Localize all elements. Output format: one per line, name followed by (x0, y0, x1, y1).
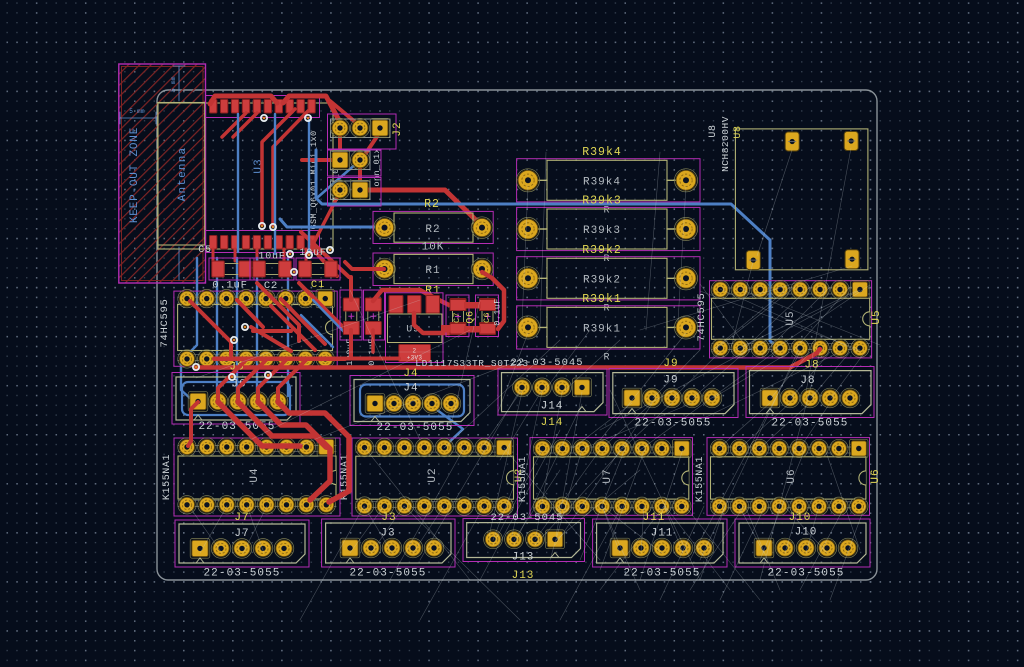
capacitor C6 (480, 299, 496, 335)
wire (234, 249, 237, 261)
capacitor C7 (450, 299, 466, 335)
wire (237, 114, 239, 252)
resistor R39k1 (516, 307, 697, 347)
wire (222, 113, 246, 137)
wire (287, 258, 289, 396)
wire (283, 249, 286, 261)
svg-text:0.1uF: 0.1uF (493, 298, 503, 326)
svg-text:J10: J10 (789, 512, 812, 524)
dimension bottom (178, 247, 180, 280)
connector J10 (739, 523, 866, 563)
wire (349, 330, 353, 358)
svg-text:22-03-5055: 22-03-5055 (634, 418, 711, 430)
capacitor C5 courtyard (209, 258, 254, 280)
connector J2 group1 courtyard (328, 114, 397, 149)
wire (190, 301, 231, 355)
svg-text:Antenna: Antenna (177, 147, 189, 202)
wire (280, 219, 384, 227)
connector J2 group3 courtyard (328, 178, 382, 207)
wire (302, 158, 333, 162)
svg-text:22-03-5055: 22-03-5055 (203, 568, 280, 580)
svg-text:J2: J2 (392, 121, 404, 136)
wire (212, 249, 215, 261)
wire (218, 360, 246, 401)
svg-text:J4: J4 (403, 383, 418, 395)
wire (262, 109, 295, 225)
svg-text:J14: J14 (541, 417, 564, 429)
wire (214, 357, 345, 361)
svg-text:C1: C1 (311, 279, 325, 291)
vias (193, 115, 333, 380)
dimension 6mm (170, 66, 185, 101)
wire (790, 349, 820, 368)
antenna A1 (158, 103, 205, 246)
svg-text:74HC595: 74HC595 (159, 298, 171, 347)
wire (196, 365, 790, 370)
svg-text:R2: R2 (424, 198, 440, 211)
svg-text:U4: U4 (249, 467, 261, 482)
wire (258, 402, 330, 500)
svg-text:U6: U6 (870, 468, 882, 483)
wire (433, 407, 463, 444)
wire (214, 357, 399, 361)
svg-text:K155NA1: K155NA1 (695, 456, 706, 502)
svg-text:10uF: 10uF (258, 252, 285, 263)
wire (464, 302, 481, 309)
capacitor C3 (343, 298, 359, 335)
keep-out zone (119, 64, 206, 283)
wire (281, 299, 325, 344)
ratsnest (189, 148, 880, 620)
svg-text:R39k3: R39k3 (583, 225, 621, 237)
svg-text:74HC595: 74HC595 (696, 292, 708, 341)
svg-text:10uF: 10uF (299, 248, 326, 259)
connector J14 (502, 373, 604, 412)
capacitor C5 (212, 261, 252, 277)
capacitor C6 courtyard (476, 295, 499, 337)
svg-text:U8: U8 (733, 125, 744, 138)
svg-text:22-03-5055: 22-03-5055 (623, 568, 700, 580)
wire (349, 280, 353, 300)
resistor R39k2 courtyard (517, 257, 700, 300)
resistor R39k3 courtyard (517, 207, 700, 250)
resistor R39k1 courtyard (517, 306, 700, 349)
svg-text:5 mm: 5 mm (129, 108, 145, 115)
module U3 bottom pads (210, 236, 316, 250)
svg-text:NCH8200HV: NCH8200HV (720, 116, 731, 172)
ic U2 courtyard (352, 438, 518, 516)
capacitor C1 courtyard (296, 258, 340, 280)
ic U1 courtyard (174, 291, 337, 366)
wire (278, 360, 306, 401)
svg-text:KEEP-OUT ZONE: KEEP-OUT ZONE (129, 127, 141, 223)
svg-text:U5: U5 (871, 309, 883, 324)
svg-text:U8: U8 (708, 124, 719, 137)
wire (345, 262, 384, 269)
resistor R39k3 (516, 209, 697, 249)
svg-text:C5: C5 (198, 245, 212, 256)
resistor R39k2 (516, 258, 697, 298)
connector J14 courtyard (498, 369, 607, 415)
connector J4 (354, 380, 470, 422)
connector J10 courtyard (735, 519, 870, 567)
wire (464, 326, 481, 333)
svg-text:R2: R2 (425, 224, 440, 236)
wire (253, 329, 291, 333)
wire (316, 150, 779, 348)
wire (441, 325, 451, 333)
connector J4 courtyard (350, 376, 474, 426)
ic U5 (711, 280, 870, 357)
wire (450, 324, 466, 335)
module U3 bottom pad row courtyard (206, 231, 320, 253)
wire (360, 190, 482, 226)
svg-text:K155NA1: K155NA1 (162, 454, 173, 500)
svg-text:J10: J10 (795, 527, 818, 539)
connector J13 (467, 523, 581, 558)
wire (283, 96, 341, 124)
wire (301, 315, 333, 347)
wire (218, 402, 300, 446)
ic U5 courtyard (710, 281, 872, 358)
svg-text:R39k3: R39k3 (582, 195, 622, 208)
capacitor C3 courtyard (340, 290, 362, 340)
svg-text:R39k2: R39k2 (582, 244, 622, 257)
svg-text:22-03-5055: 22-03-5055 (767, 568, 844, 580)
wire (338, 130, 342, 160)
wire (318, 162, 358, 197)
ic U7 courtyard (530, 438, 693, 516)
resistor R1 (374, 254, 493, 283)
svg-text:R39k2: R39k2 (583, 274, 621, 286)
wire (258, 360, 286, 401)
wire (251, 327, 291, 351)
svg-text:R39k4: R39k4 (583, 176, 621, 188)
svg-text:10K: 10K (422, 242, 445, 254)
svg-text:J9: J9 (663, 358, 678, 370)
wire (299, 283, 345, 329)
module U3 top pad row courtyard (206, 96, 320, 118)
wire (450, 300, 466, 311)
regulator U9 courtyard (386, 293, 444, 363)
connector J2 group3 (330, 180, 370, 199)
svg-text:J13: J13 (512, 570, 535, 582)
module U8 body (735, 129, 868, 270)
connector J2 group2 (330, 150, 370, 169)
resistor R1 courtyard (373, 253, 493, 286)
wire (257, 283, 299, 341)
wire (256, 258, 258, 392)
wire (358, 162, 362, 190)
svg-text:22-03-5055: 22-03-5055 (349, 568, 426, 580)
wire (216, 258, 218, 396)
svg-text:R39k1: R39k1 (582, 293, 622, 306)
wire (274, 114, 276, 254)
svg-text:R1: R1 (425, 265, 440, 277)
svg-text:R39k4: R39k4 (582, 146, 622, 159)
connector J6 (176, 377, 296, 420)
capacitor C4 courtyard (364, 290, 385, 340)
svg-text:C2: C2 (264, 280, 278, 292)
capacitor C2 courtyard (250, 258, 294, 280)
connector J2 group2 courtyard (328, 150, 382, 176)
connector J3 (326, 523, 451, 563)
ic U6 courtyard (707, 438, 870, 516)
wire (311, 247, 337, 276)
wire (278, 402, 349, 502)
wire (181, 258, 197, 399)
wire (273, 111, 308, 226)
svg-text:2: 2 (413, 348, 417, 355)
svg-text:J13: J13 (512, 552, 535, 564)
dimension 5mm (120, 108, 156, 124)
module U3 body (158, 103, 333, 249)
capacitor C1 (299, 261, 338, 277)
svg-text:22-03-5045: 22-03-5045 (510, 357, 583, 369)
resistor R2 courtyard (373, 211, 493, 243)
wire (308, 120, 310, 252)
wire (371, 330, 375, 352)
module U3 top pads (210, 100, 316, 114)
wire (236, 258, 238, 394)
connector J2 group1 (330, 118, 390, 137)
resistor R2 (374, 213, 493, 242)
capacitor C4 (365, 298, 381, 335)
connector J9 courtyard (609, 369, 738, 418)
board outline (157, 90, 877, 580)
svg-text:U2: U2 (427, 467, 439, 482)
resistor R39k4 (516, 160, 697, 200)
capacitor C7 courtyard (446, 295, 469, 337)
wire (414, 313, 449, 333)
wire (364, 132, 380, 156)
svg-text:22-03-5055: 22-03-5055 (376, 422, 453, 434)
wire (238, 402, 326, 447)
wire (482, 272, 504, 329)
svg-text:R39k1: R39k1 (583, 323, 621, 335)
connector J7 courtyard (175, 520, 309, 567)
capacitor C2 (253, 261, 292, 277)
svg-text:J7: J7 (234, 512, 249, 524)
wire (309, 192, 340, 252)
connector J8 courtyard (746, 367, 874, 418)
wire (188, 402, 198, 446)
ic U2 (355, 438, 513, 515)
wire (480, 300, 496, 311)
resistor R39k4 courtyard (517, 159, 700, 202)
ic U4 courtyard (174, 438, 340, 516)
wire (210, 96, 277, 104)
connector J6 courtyard (172, 373, 300, 425)
ic U6 (710, 439, 868, 515)
svg-text:C6: C6 (482, 312, 492, 323)
module U8 pads (746, 132, 859, 270)
wire (480, 324, 496, 335)
wire (330, 101, 360, 126)
wire (373, 290, 449, 305)
wire (313, 300, 345, 333)
ic U1 (178, 289, 335, 368)
wire (233, 113, 257, 137)
connector J3 courtyard (322, 519, 455, 567)
wire (238, 360, 266, 401)
wire (349, 277, 353, 299)
connector J8 (750, 371, 872, 414)
connector J11 courtyard (593, 519, 727, 567)
svg-text:J3: J3 (381, 512, 396, 524)
svg-text:J4: J4 (403, 368, 418, 380)
connector J7 (179, 524, 305, 563)
svg-text:5 mm: 5 mm (170, 76, 177, 92)
svg-text:0.1uF: 0.1uF (212, 280, 248, 292)
wire (301, 232, 349, 277)
svg-text:C7: C7 (452, 312, 462, 323)
connector J11 (597, 523, 723, 563)
wire (256, 249, 259, 261)
ic U7 (533, 439, 691, 515)
wire (237, 300, 263, 327)
wire (271, 306, 315, 350)
ic U4 (178, 438, 336, 514)
connector J13 courtyard (463, 519, 585, 562)
svg-text:J7: J7 (234, 528, 249, 540)
regulator U9 (388, 296, 442, 362)
wire (305, 249, 308, 261)
connector J9 (613, 373, 734, 414)
